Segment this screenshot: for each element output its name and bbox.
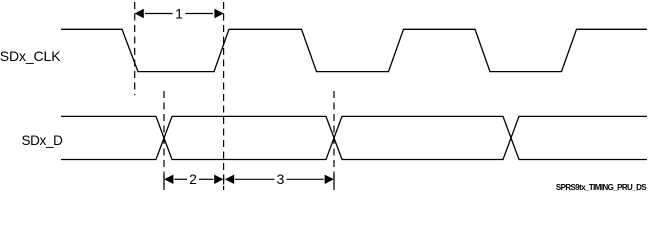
svg-text:1: 1: [175, 5, 183, 21]
svg-text:2: 2: [189, 171, 197, 187]
svg-text:SDx_D: SDx_D: [22, 133, 64, 148]
SDx_D waveform lower-start strand: [61, 116, 647, 159]
dashed reference line D (data transition 2): [333, 91, 335, 190]
dimension arrow 3 (data hold): [225, 171, 334, 187]
svg-text:SPRS9tx_TIMING_PRU_DS: SPRS9tx_TIMING_PRU_DS: [556, 183, 647, 192]
tick at line D arrow level: [333, 175, 335, 185]
svg-text:SDx_CLK: SDx_CLK: [0, 48, 61, 64]
dimension arrow 2 (data setup): [164, 171, 223, 187]
SDx_D waveform upper-start strand: [61, 116, 647, 159]
tick at line C arrow level: [163, 175, 165, 185]
SDx_CLK waveform: [61, 29, 647, 71]
dashed reference line B (clock rising edge, full height): [223, 2, 225, 190]
dashed reference line C (data transition 1): [163, 91, 165, 190]
tick at line B arrow level: [223, 175, 225, 185]
svg-text:3: 3: [277, 171, 285, 187]
dimension arrow 1 (clock period): [135, 5, 224, 21]
dashed reference line A (clock falling edge): [134, 2, 136, 95]
